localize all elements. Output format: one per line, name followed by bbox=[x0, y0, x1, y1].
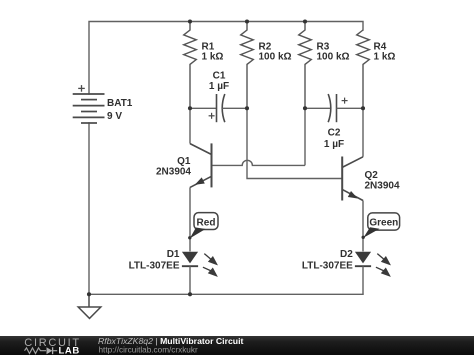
transistor Q1 emitter arrow bbox=[195, 177, 205, 184]
svg-text:2N3904: 2N3904 bbox=[156, 166, 191, 177]
LED D2 bbox=[355, 252, 371, 295]
svg-text:100 kΩ: 100 kΩ bbox=[317, 52, 350, 63]
svg-text:C2: C2 bbox=[328, 127, 341, 138]
wire Q1 base with hop over Q2 base wire bbox=[212, 160, 306, 165]
node top rail R1 junction bbox=[188, 19, 192, 23]
wire Q2 emitter to LED D2 bbox=[362, 201, 364, 252]
annotation bubble Red bbox=[190, 213, 218, 239]
capacitor C2 bbox=[305, 94, 363, 122]
capacitor C2 plus sign bbox=[342, 98, 348, 104]
wire Q1 emitter to LED D1 bbox=[189, 187, 191, 251]
svg-text:RfbxTixZK8q2 | MultiVibrator C: RfbxTixZK8q2 | MultiVibrator Circuit bbox=[98, 336, 244, 346]
svg-text:C1: C1 bbox=[213, 70, 226, 81]
CircuitLab logo resistor squiggle bbox=[25, 348, 47, 354]
wire top rail bbox=[89, 22, 363, 95]
svg-text:LAB: LAB bbox=[59, 346, 80, 355]
transistor Q2 emitter arrow bbox=[348, 191, 358, 199]
wire bottom rail bbox=[89, 293, 363, 295]
svg-text:100 kΩ: 100 kΩ bbox=[259, 52, 292, 63]
LED D2 emission arrows bbox=[376, 254, 390, 276]
footer bar bbox=[0, 336, 474, 355]
wire R1 node to Q1 collector bbox=[189, 108, 191, 143]
transistor Q1 bbox=[190, 143, 212, 187]
svg-text:Q2: Q2 bbox=[365, 170, 379, 181]
battery plus sign bbox=[78, 85, 85, 92]
svg-text:1 kΩ: 1 kΩ bbox=[202, 52, 224, 63]
resistor R2 bbox=[241, 22, 254, 109]
node Red tail junction bbox=[188, 236, 191, 239]
node B C1-R2 junction bbox=[245, 106, 249, 110]
svg-text:D1: D1 bbox=[167, 249, 180, 260]
svg-text:LTL-307EE: LTL-307EE bbox=[129, 261, 180, 272]
svg-text:1 kΩ: 1 kΩ bbox=[374, 52, 396, 63]
node ground junction bbox=[87, 292, 91, 296]
node D C2-R4 junction bbox=[361, 106, 365, 110]
node A R1-C1 junction bbox=[188, 106, 192, 110]
transistor Q2 bbox=[342, 157, 363, 201]
svg-text:1 µF: 1 µF bbox=[209, 81, 229, 92]
node D1 bottom junction bbox=[188, 292, 192, 296]
svg-text:http://circuitlab.com/crxkukr: http://circuitlab.com/crxkukr bbox=[99, 345, 198, 354]
wire left rail (battery bottom to ground node) bbox=[88, 123, 90, 294]
capacitor C1 bbox=[190, 94, 247, 122]
CircuitLab logo diode bbox=[47, 347, 53, 354]
node C R3-C2 junction bbox=[303, 106, 307, 110]
svg-text:D2: D2 bbox=[340, 249, 353, 260]
wire R2 node down to Q2 base bbox=[247, 108, 342, 178]
node top rail R3 junction bbox=[303, 19, 307, 23]
resistor R1 bbox=[184, 22, 197, 109]
svg-text:Red: Red bbox=[197, 217, 216, 228]
resistor R3 bbox=[299, 22, 312, 109]
svg-text:Green: Green bbox=[369, 217, 398, 228]
svg-text:BAT1: BAT1 bbox=[107, 98, 133, 109]
resistor R4 bbox=[357, 30, 370, 108]
svg-text:Q1: Q1 bbox=[177, 156, 191, 167]
wire R3 node down to Q1 base bbox=[304, 108, 306, 165]
ground bbox=[78, 294, 101, 318]
LED D1 bbox=[182, 252, 198, 295]
svg-text:1 µF: 1 µF bbox=[324, 139, 344, 150]
LED D1 emission arrows bbox=[203, 254, 217, 276]
node top rail R2 junction bbox=[245, 19, 249, 23]
annotation bubble Green bbox=[363, 213, 399, 238]
node Green tail junction bbox=[362, 236, 365, 239]
capacitor C1 plus sign bbox=[209, 113, 215, 119]
svg-text:9 V: 9 V bbox=[107, 111, 122, 122]
wire R4 node to Q2 collector bbox=[362, 108, 364, 157]
svg-text:2N3904: 2N3904 bbox=[365, 181, 400, 192]
svg-text:LTL-307EE: LTL-307EE bbox=[302, 261, 353, 272]
battery BAT1 bbox=[73, 94, 105, 123]
